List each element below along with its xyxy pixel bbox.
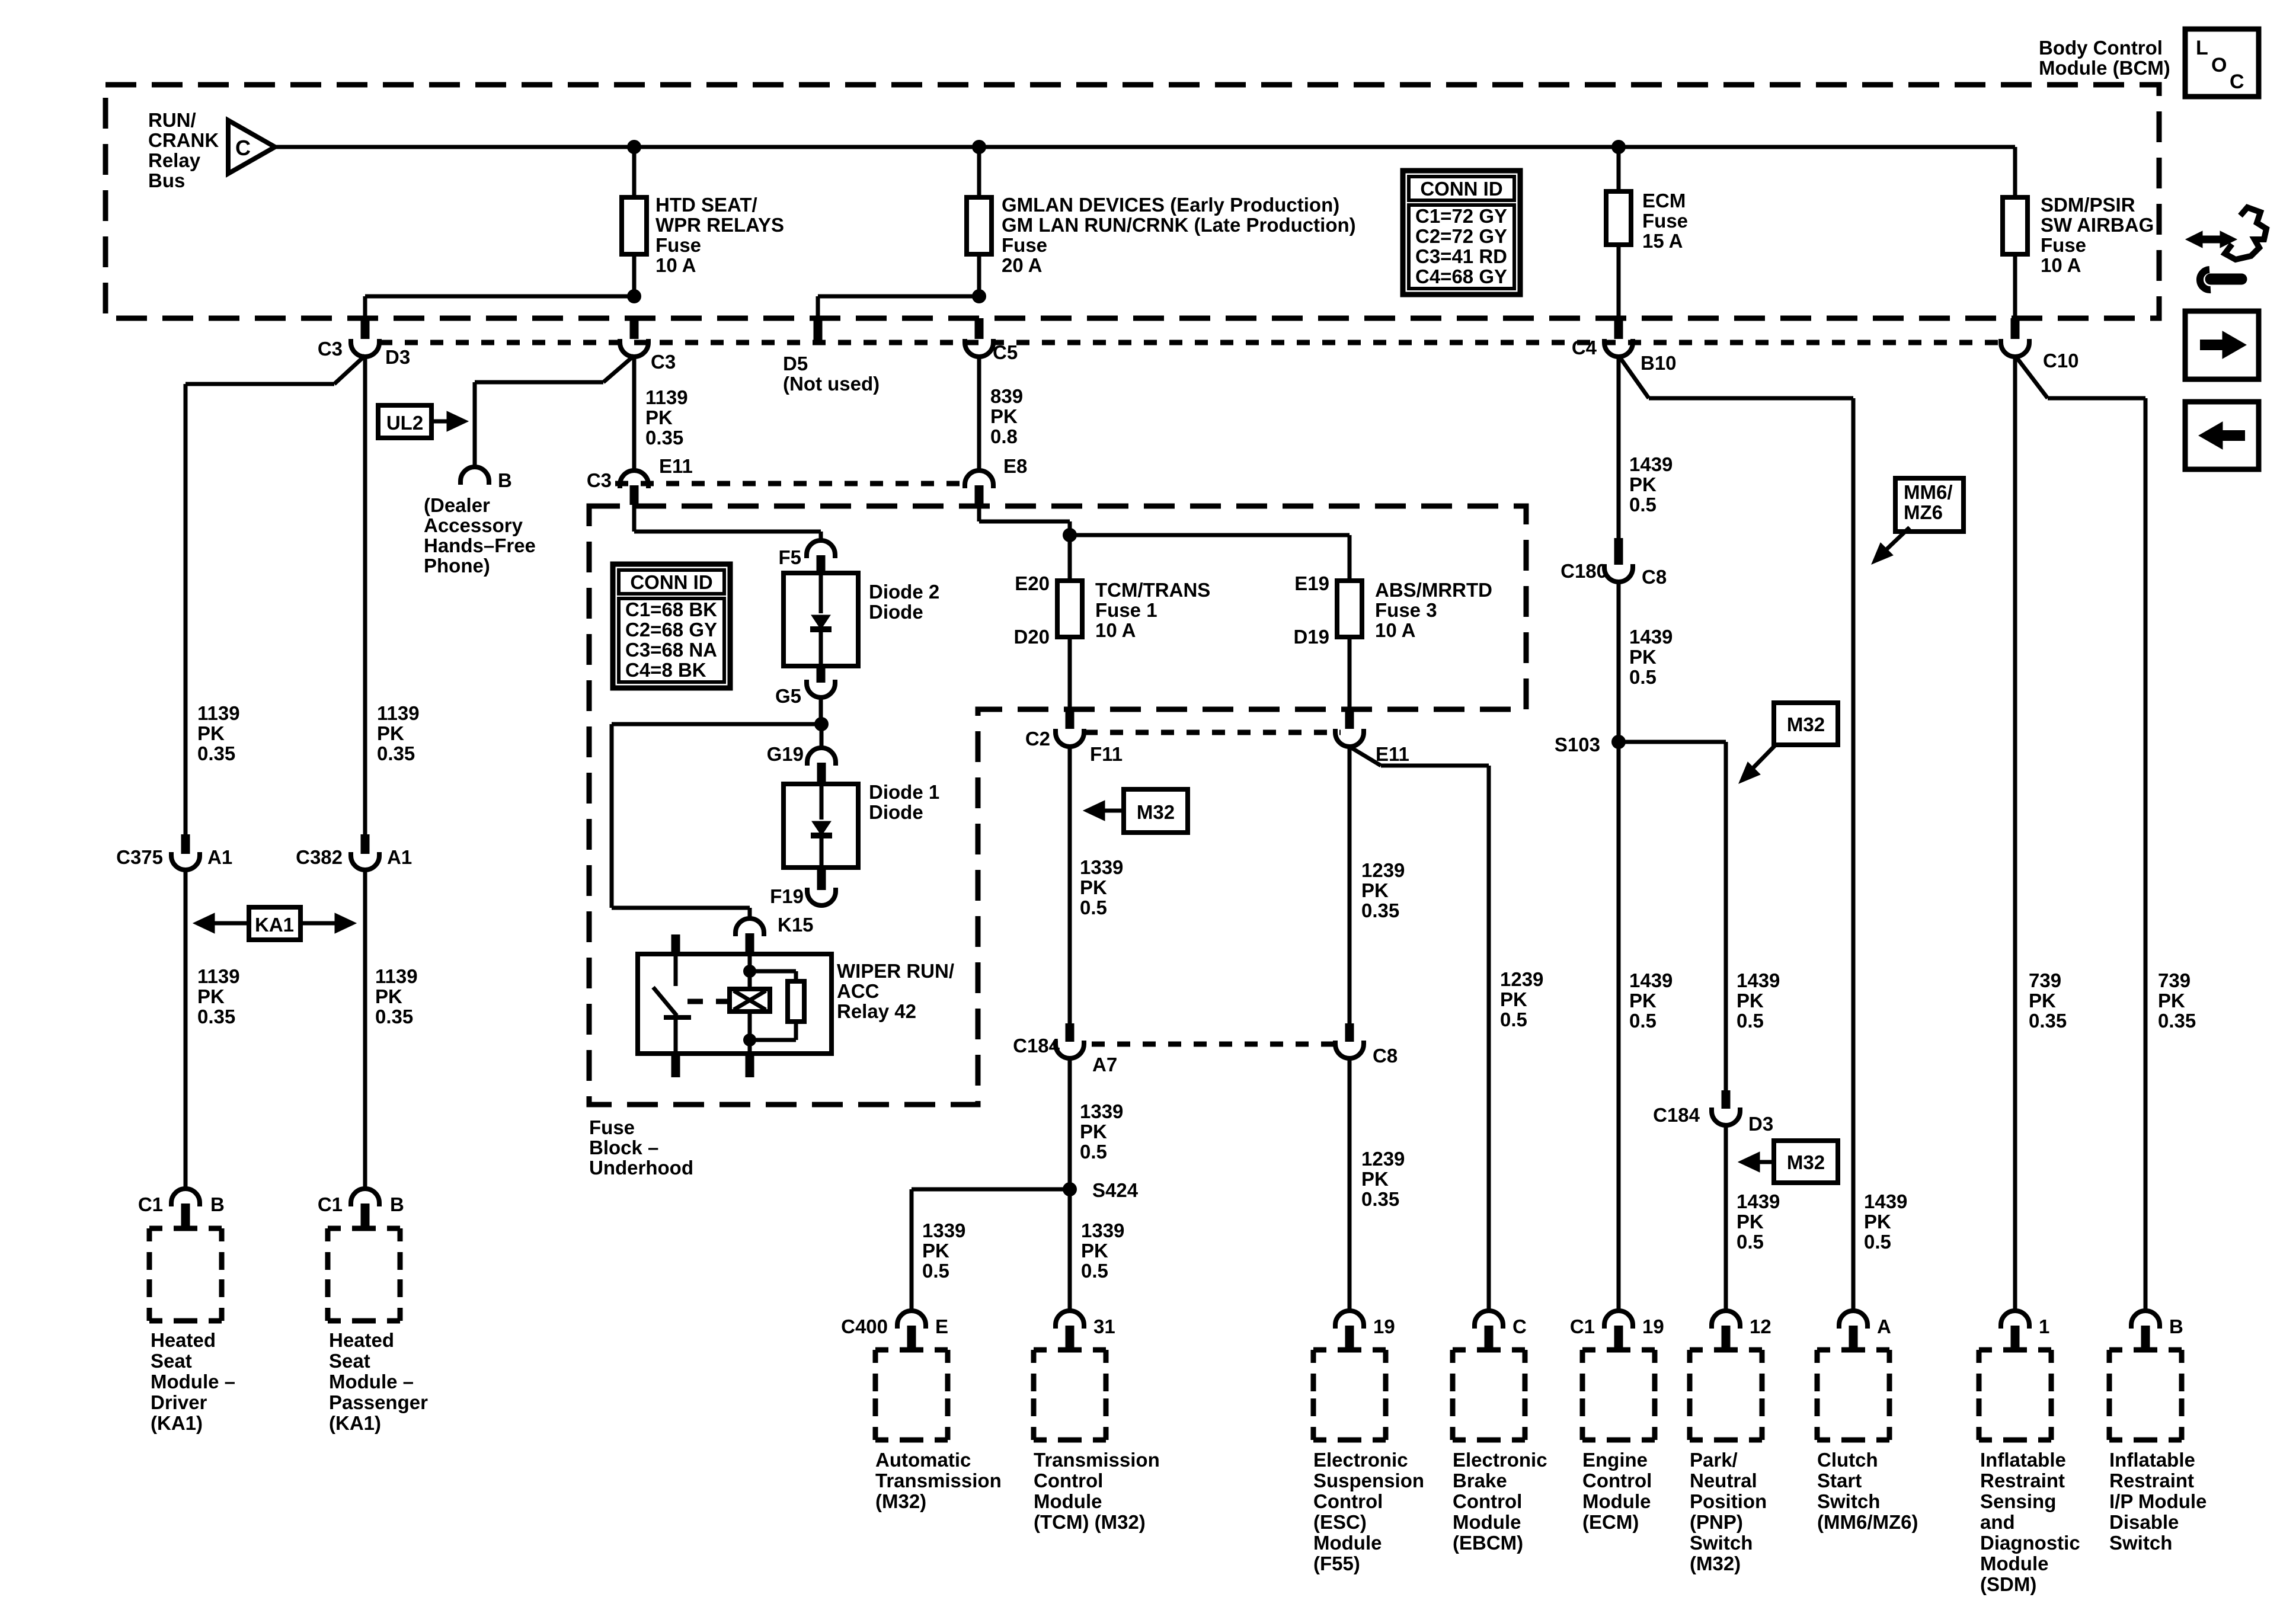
svg-text:1439: 1439 [1629,453,1673,475]
svg-text:0.5: 0.5 [1080,897,1107,918]
svg-text:A1: A1 [387,846,412,868]
svg-text:1239: 1239 [1361,859,1405,881]
svg-text:C1=68 BK: C1=68 BK [625,598,717,620]
svg-text:A7: A7 [1092,1054,1117,1076]
svg-text:O: O [2211,54,2227,76]
svg-text:0.5: 0.5 [1629,666,1657,688]
svg-text:Diode 2: Diode 2 [869,581,939,603]
svg-text:739: 739 [2029,969,2061,991]
svg-text:1: 1 [2039,1315,2049,1337]
svg-text:1339: 1339 [1080,1100,1123,1122]
svg-text:Restraint: Restraint [2109,1470,2194,1491]
svg-text:Module: Module [1582,1490,1651,1512]
svg-text:A: A [1877,1315,1891,1337]
svg-text:0.35: 0.35 [1361,1188,1399,1210]
svg-text:1139: 1139 [375,965,418,987]
svg-text:19: 19 [1642,1315,1664,1337]
svg-text:D3: D3 [385,346,410,368]
svg-text:C8: C8 [1373,1045,1398,1067]
svg-text:C2: C2 [1025,728,1050,750]
svg-text:0.5: 0.5 [1081,1260,1108,1282]
svg-text:(EBCM): (EBCM) [1453,1532,1523,1554]
svg-text:(TCM) (M32): (TCM) (M32) [1034,1511,1146,1533]
svg-text:PK: PK [1361,879,1389,901]
svg-text:WPR RELAYS: WPR RELAYS [655,214,784,236]
svg-text:C3: C3 [587,469,612,491]
svg-text:Control: Control [1034,1470,1103,1491]
svg-text:Brake: Brake [1453,1470,1507,1491]
svg-text:F19: F19 [770,885,804,907]
svg-text:Diode: Diode [869,801,923,823]
svg-text:Neutral: Neutral [1690,1470,1757,1491]
svg-text:PK: PK [1629,646,1657,668]
svg-text:PK: PK [922,1240,949,1262]
svg-text:(ESC): (ESC) [1313,1511,1367,1533]
svg-text:1439: 1439 [1629,969,1673,991]
svg-text:Fuse: Fuse [1642,210,1688,232]
svg-text:Module: Module [1453,1511,1521,1533]
svg-text:0.5: 0.5 [922,1260,949,1282]
svg-text:Park/: Park/ [1690,1449,1738,1471]
svg-text:C400: C400 [841,1315,888,1337]
svg-text:10 A: 10 A [2041,254,2081,276]
svg-text:M32: M32 [1137,801,1175,823]
svg-text:C3=41 RD: C3=41 RD [1415,245,1507,267]
svg-text:C4=8 BK: C4=8 BK [625,659,706,681]
svg-text:L: L [2196,37,2208,59]
svg-text:(SDM): (SDM) [1980,1573,2036,1595]
svg-text:Underhood: Underhood [589,1157,693,1179]
svg-text:Passenger: Passenger [329,1391,428,1413]
svg-text:C5: C5 [993,341,1018,363]
svg-text:PK: PK [2029,990,2056,1012]
svg-text:C2=72 GY: C2=72 GY [1415,225,1507,247]
svg-text:SW AIRBAG: SW AIRBAG [2041,214,2154,236]
svg-text:S103: S103 [1555,734,1600,756]
svg-text:20 A: 20 A [1002,254,1042,276]
svg-text:Fuse: Fuse [1002,234,1047,256]
svg-text:C4: C4 [1572,337,1597,359]
svg-text:G5: G5 [775,685,801,707]
svg-text:E11: E11 [1376,743,1409,765]
svg-text:1339: 1339 [922,1219,965,1241]
svg-text:PK: PK [377,722,404,744]
svg-text:B: B [210,1193,225,1215]
svg-text:B10: B10 [1641,352,1677,374]
svg-text:Module (BCM): Module (BCM) [2039,57,2170,79]
svg-text:Seat: Seat [329,1350,370,1372]
svg-text:739: 739 [2158,969,2191,991]
svg-text:(F55): (F55) [1313,1553,1360,1574]
svg-text:1139: 1139 [645,386,688,408]
svg-text:12: 12 [1750,1315,1771,1337]
svg-text:1139: 1139 [197,702,240,724]
svg-text:1439: 1439 [1737,1190,1780,1212]
svg-text:10 A: 10 A [1095,619,1136,641]
svg-text:Disable: Disable [2109,1511,2179,1533]
svg-text:Clutch: Clutch [1817,1449,1878,1471]
svg-text:MZ6: MZ6 [1904,501,1943,523]
svg-text:C3: C3 [651,351,676,373]
svg-text:0.5: 0.5 [1737,1231,1764,1253]
svg-text:Module: Module [1980,1553,2048,1574]
svg-text:C382: C382 [296,846,343,868]
svg-text:PK: PK [1361,1168,1389,1190]
svg-text:Inflatable: Inflatable [1980,1449,2066,1471]
svg-text:Body Control: Body Control [2039,37,2163,59]
svg-text:I/P Module: I/P Module [2109,1490,2207,1512]
svg-text:F11: F11 [1090,743,1123,765]
svg-text:0.5: 0.5 [1629,494,1657,516]
svg-text:(M32): (M32) [1690,1553,1741,1574]
svg-text:C: C [1512,1315,1527,1337]
svg-text:Switch: Switch [1817,1490,1880,1512]
svg-text:0.35: 0.35 [645,427,683,449]
svg-text:1339: 1339 [1080,856,1123,878]
svg-text:Fuse 3: Fuse 3 [1375,599,1437,621]
svg-text:Heated: Heated [151,1329,216,1351]
svg-text:Driver: Driver [151,1391,207,1413]
svg-text:B: B [2169,1315,2183,1337]
svg-text:0.35: 0.35 [377,742,415,764]
svg-text:Engine: Engine [1582,1449,1648,1471]
svg-text:PK: PK [1081,1240,1108,1262]
svg-text:Control: Control [1313,1490,1383,1512]
svg-text:1139: 1139 [377,702,420,724]
svg-text:Inflatable: Inflatable [2109,1449,2195,1471]
svg-text:Fuse: Fuse [2041,234,2086,256]
svg-text:0.8: 0.8 [990,425,1018,447]
svg-text:10 A: 10 A [655,254,696,276]
svg-text:Diode 1: Diode 1 [869,781,939,803]
svg-text:A1: A1 [207,846,232,868]
svg-text:0.5: 0.5 [1864,1231,1891,1253]
svg-text:Transmission: Transmission [1034,1449,1160,1471]
svg-text:E11: E11 [659,455,693,477]
svg-text:Fuse: Fuse [655,234,701,256]
svg-text:Relay 42: Relay 42 [837,1000,916,1022]
svg-text:0.5: 0.5 [1080,1141,1107,1163]
svg-text:1439: 1439 [1864,1190,1907,1212]
svg-text:Hands–Free: Hands–Free [424,534,536,556]
svg-text:F5: F5 [778,546,801,568]
svg-text:Relay: Relay [148,149,201,171]
svg-text:C: C [2230,71,2244,93]
svg-text:Fuse: Fuse [589,1116,635,1138]
svg-text:C184: C184 [1653,1104,1700,1126]
svg-text:Bus: Bus [148,169,185,191]
svg-text:C3=68 NA: C3=68 NA [625,639,717,661]
svg-text:C: C [235,136,251,160]
svg-text:Restraint: Restraint [1980,1470,2065,1491]
svg-text:Block –: Block – [589,1137,658,1158]
svg-text:0.5: 0.5 [1500,1009,1527,1030]
svg-text:D19: D19 [1293,626,1329,648]
svg-text:1139: 1139 [197,965,240,987]
svg-text:0.5: 0.5 [1629,1010,1657,1032]
svg-text:Electronic: Electronic [1453,1449,1547,1471]
svg-text:ECM: ECM [1642,190,1686,212]
svg-text:(PNP): (PNP) [1690,1511,1743,1533]
svg-text:E8: E8 [1003,455,1027,477]
svg-text:PK: PK [1629,990,1657,1012]
svg-text:0.35: 0.35 [1361,900,1399,921]
svg-text:ABS/MRRTD: ABS/MRRTD [1375,579,1492,601]
svg-text:C184: C184 [1013,1035,1060,1057]
svg-text:RUN/: RUN/ [148,109,196,131]
svg-text:HTD SEAT/: HTD SEAT/ [655,194,757,216]
svg-text:Switch: Switch [1690,1532,1753,1554]
svg-text:Module –: Module – [329,1371,414,1393]
svg-text:MM6/: MM6/ [1904,481,1953,503]
svg-text:CONN ID: CONN ID [1420,178,1502,200]
svg-text:S424: S424 [1092,1179,1139,1201]
svg-text:PK: PK [197,722,225,744]
svg-text:0.35: 0.35 [375,1006,413,1028]
svg-text:1339: 1339 [1081,1219,1124,1241]
svg-text:C1=72 GY: C1=72 GY [1415,205,1507,227]
svg-text:E20: E20 [1015,572,1050,594]
svg-text:G19: G19 [767,743,804,765]
svg-text:Transmission: Transmission [875,1470,1002,1491]
svg-text:E19: E19 [1294,572,1329,594]
svg-text:19: 19 [1373,1315,1395,1337]
svg-text:PK: PK [1500,988,1527,1010]
svg-text:E: E [935,1315,948,1337]
svg-text:0.35: 0.35 [2158,1010,2196,1032]
svg-text:C1: C1 [1570,1315,1595,1337]
svg-text:Automatic: Automatic [875,1449,971,1471]
svg-text:Accessory: Accessory [424,514,523,536]
svg-text:0.35: 0.35 [197,1006,235,1028]
svg-text:(KA1): (KA1) [151,1412,203,1434]
svg-text:PK: PK [197,985,225,1007]
svg-text:Position: Position [1690,1490,1767,1512]
svg-text:1439: 1439 [1629,626,1673,648]
svg-text:(Dealer: (Dealer [424,494,490,516]
svg-text:Start: Start [1817,1470,1862,1491]
svg-text:0.35: 0.35 [197,742,235,764]
svg-text:Fuse 1: Fuse 1 [1095,599,1157,621]
svg-text:GMLAN DEVICES (Early Productio: GMLAN DEVICES (Early Production) [1002,194,1339,216]
svg-text:Suspension: Suspension [1313,1470,1424,1491]
svg-text:C8: C8 [1642,566,1667,588]
svg-text:C375: C375 [116,846,163,868]
svg-text:Module: Module [1034,1490,1102,1512]
svg-text:KA1: KA1 [255,914,294,936]
svg-text:Module: Module [1313,1532,1382,1554]
svg-text:(KA1): (KA1) [329,1412,381,1434]
svg-text:Switch: Switch [2109,1532,2172,1554]
svg-text:WIPER RUN/: WIPER RUN/ [837,960,954,982]
svg-text:Control: Control [1453,1490,1522,1512]
svg-text:Sensing: Sensing [1980,1490,2056,1512]
svg-text:CONN ID: CONN ID [630,571,712,593]
svg-text:TCM/TRANS: TCM/TRANS [1095,579,1210,601]
svg-text:Heated: Heated [329,1329,394,1351]
svg-text:PK: PK [1080,1121,1107,1142]
svg-text:M32: M32 [1787,713,1825,735]
svg-text:839: 839 [990,385,1023,407]
svg-text:(M32): (M32) [875,1490,926,1512]
svg-text:Control: Control [1582,1470,1652,1491]
svg-text:Seat: Seat [151,1350,192,1372]
svg-text:31: 31 [1093,1315,1115,1337]
svg-text:PK: PK [1737,990,1764,1012]
svg-text:C10: C10 [2043,350,2079,372]
svg-text:PK: PK [990,405,1018,427]
svg-text:SDM/PSIR: SDM/PSIR [2041,194,2135,216]
svg-text:Electronic: Electronic [1313,1449,1408,1471]
svg-text:(ECM): (ECM) [1582,1511,1639,1533]
svg-text:10 A: 10 A [1375,619,1415,641]
svg-text:C2=68 GY: C2=68 GY [625,619,717,641]
svg-text:PK: PK [1629,473,1657,495]
svg-text:PK: PK [1864,1211,1891,1233]
svg-text:ACC: ACC [837,980,880,1002]
svg-text:Phone): Phone) [424,555,490,577]
svg-text:PK: PK [1737,1211,1764,1233]
svg-text:1239: 1239 [1361,1148,1405,1170]
svg-text:15 A: 15 A [1642,230,1683,252]
svg-text:D20: D20 [1013,626,1050,648]
svg-text:GM LAN RUN/CRNK (Late Producti: GM LAN RUN/CRNK (Late Production) [1002,214,1356,236]
svg-text:C3: C3 [318,338,343,360]
svg-text:PK: PK [645,406,673,428]
svg-text:D3: D3 [1748,1113,1773,1135]
svg-text:D5: D5 [783,353,808,375]
svg-text:Diagnostic: Diagnostic [1980,1532,2080,1554]
svg-text:C1: C1 [138,1193,163,1215]
svg-text:Module –: Module – [151,1371,235,1393]
svg-text:C1: C1 [318,1193,343,1215]
svg-text:B: B [498,469,512,491]
svg-text:M32: M32 [1787,1151,1825,1173]
svg-text:PK: PK [2158,990,2185,1012]
svg-text:Diode: Diode [869,601,923,623]
svg-text:and: and [1980,1511,2015,1533]
svg-text:PK: PK [1080,876,1107,898]
svg-text:UL2: UL2 [386,412,423,434]
svg-text:PK: PK [375,985,402,1007]
svg-text:C180: C180 [1560,560,1607,582]
svg-text:C4=68 GY: C4=68 GY [1415,265,1507,287]
svg-text:CRANK: CRANK [148,129,219,151]
svg-text:B: B [390,1193,404,1215]
svg-text:0.5: 0.5 [1737,1010,1764,1032]
svg-text:(MM6/MZ6): (MM6/MZ6) [1817,1511,1918,1533]
svg-text:1439: 1439 [1737,969,1780,991]
svg-text:K15: K15 [778,914,814,936]
svg-text:(Not used): (Not used) [783,373,880,395]
svg-text:0.35: 0.35 [2029,1010,2067,1032]
svg-text:1239: 1239 [1500,968,1543,990]
